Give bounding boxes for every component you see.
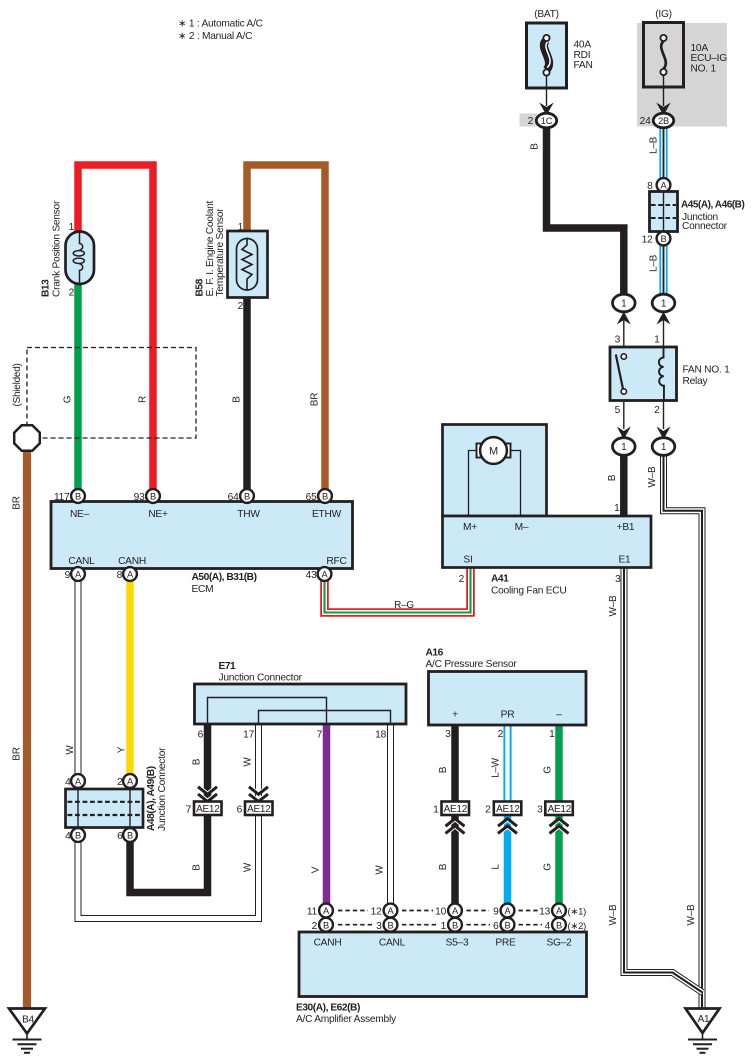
svg-text:1C: 1C — [541, 116, 553, 126]
svg-text:12: 12 — [642, 234, 653, 245]
relay pin 5 lead and arrow — [613, 401, 636, 456]
wire B from junction connector A48 pin 6B to junction AE12 pin 7 — [130, 814, 208, 893]
amplifier pin 11A circle — [319, 904, 333, 918]
svg-text:(Shielded): (Shielded) — [12, 363, 23, 406]
svg-text:B: B — [150, 492, 156, 502]
svg-text:B: B — [438, 766, 449, 773]
wire W from junction connector E71 pin 17 to AE12 pin 6 — [255, 723, 262, 802]
svg-text:2: 2 — [654, 405, 660, 416]
svg-text:AE12: AE12 — [196, 804, 220, 815]
svg-text:A: A — [505, 906, 512, 916]
svg-text:A: A — [556, 906, 563, 916]
svg-text:13: 13 — [539, 906, 550, 917]
svg-text:G: G — [543, 766, 554, 774]
junction AE12 pin 6 box — [245, 802, 273, 816]
svg-text:W: W — [65, 745, 76, 755]
wire B from coolant temp sensor pin 2 to ECM pin 64 THW — [243, 296, 251, 490]
chevron arrows into AE12 pin 6 — [249, 786, 268, 802]
wire W-B from cooling fan ECU E1 to ground A1 — [624, 567, 703, 993]
junction connector A45 pin 12B circle — [657, 232, 671, 246]
svg-text:Junction Connector: Junction Connector — [157, 747, 168, 831]
svg-text:1: 1 — [621, 299, 627, 310]
svg-text:NO. 1: NO. 1 — [691, 63, 717, 74]
svg-text:B: B — [530, 143, 541, 150]
svg-text:M–: M– — [515, 522, 529, 533]
svg-text:SI: SI — [463, 555, 472, 566]
svg-text:A: A — [661, 181, 668, 191]
wire L-W from A/C pressure sensor pin 2 PR to AE12 pin 2 — [503, 724, 511, 802]
ECM pin 65 B circle — [318, 489, 332, 503]
amplifier pin 10A circle — [448, 904, 462, 918]
svg-text:B: B — [661, 234, 667, 244]
svg-text:CANH: CANH — [314, 938, 342, 949]
svg-text:B: B — [75, 492, 81, 502]
svg-text:Cooling Fan ECU: Cooling Fan ECU — [491, 585, 567, 596]
chevron arrows into AE12 pin 1 — [446, 819, 465, 835]
crank position sensor B13 body — [66, 232, 95, 285]
svg-text:8: 8 — [647, 181, 653, 192]
wire B from A/C pressure sensor pin 3 + to AE12 pin 1 — [451, 724, 459, 802]
A/C amplifier assembly E30(A),E62(B) body — [299, 932, 587, 997]
IG circuit gray background panel — [637, 23, 727, 127]
svg-text:PRE: PRE — [495, 938, 516, 949]
wire W from ECM pin 9 CANL to junction connector A48 pin 4A — [75, 580, 82, 775]
svg-text:L–B: L–B — [649, 254, 660, 272]
wire W from junction connector A48 pin 4B to junction AE12 pin 6 — [78, 814, 259, 919]
svg-text:+: + — [452, 710, 458, 721]
svg-text:R: R — [138, 396, 149, 403]
ground A1 — [686, 1009, 720, 1053]
svg-text:A48(A), A49(B): A48(A), A49(B) — [146, 766, 157, 831]
svg-text:W–B: W–B — [647, 466, 658, 488]
svg-text:A: A — [388, 906, 395, 916]
amplifier pin 12A circle — [384, 904, 398, 918]
junction AE12 pin 3 box — [545, 802, 573, 816]
wire L from AE12 pin 2 to A/C amplifier pin 9A PRE — [504, 814, 512, 904]
svg-text:2: 2 — [117, 777, 123, 788]
amplifier pin 4B circle — [552, 918, 566, 932]
svg-text:B58: B58 — [194, 278, 205, 296]
svg-text:43: 43 — [306, 570, 317, 581]
ECM pin 9 A circle — [71, 567, 85, 581]
coolant temperature sensor B58 body — [228, 231, 268, 298]
svg-text:3: 3 — [537, 804, 543, 815]
svg-text:CANL: CANL — [379, 938, 406, 949]
svg-text:THW: THW — [237, 509, 260, 520]
svg-text:ECM: ECM — [192, 584, 214, 595]
wire G from crank position sensor pin 2 to ECM pin 117 NE- — [74, 283, 82, 490]
svg-text:2: 2 — [312, 921, 318, 932]
svg-text:A: A — [75, 777, 82, 787]
svg-text:R–G: R–G — [394, 600, 414, 611]
svg-text:65: 65 — [306, 492, 317, 503]
svg-text:Junction Connector: Junction Connector — [219, 673, 303, 684]
svg-text:RFC: RFC — [326, 556, 346, 567]
A48 pin 4B circle — [71, 828, 85, 842]
svg-text:BR: BR — [310, 393, 321, 406]
amplifier pin 3B circle — [384, 918, 398, 932]
dashed links between amplifier pin circles row A — [338, 910, 538, 912]
svg-text:2: 2 — [69, 287, 75, 298]
svg-text:Temperature Sensor: Temperature Sensor — [215, 208, 226, 297]
svg-text:A: A — [322, 570, 329, 580]
svg-text:W: W — [243, 862, 254, 872]
svg-text:NE+: NE+ — [148, 509, 168, 520]
ECM pin 93 B circle — [146, 489, 160, 503]
fan motor M — [469, 437, 521, 516]
svg-text:4: 4 — [65, 777, 71, 788]
svg-text:FAN: FAN — [574, 60, 593, 71]
ground B4 — [9, 1009, 45, 1053]
ECM pin 43 A circle — [318, 567, 332, 581]
svg-text:A50(A), B31(B): A50(A), B31(B) — [192, 572, 257, 583]
svg-text:B: B — [244, 492, 250, 502]
svg-text:1: 1 — [238, 222, 244, 233]
wire L-B from connector 2B to junction connector A45 pin 8A — [659, 127, 667, 179]
svg-text:∗ 2 : Manual A/C: ∗ 2 : Manual A/C — [178, 31, 252, 42]
svg-text:12: 12 — [371, 906, 382, 917]
svg-text:17: 17 — [243, 729, 254, 740]
svg-text:1: 1 — [614, 503, 620, 514]
svg-text:6: 6 — [493, 921, 499, 932]
svg-text:B: B — [452, 921, 458, 931]
relay pin 2 lead and arrow — [652, 401, 675, 456]
fuse RDI FAN 40A (BAT) — [527, 23, 567, 106]
svg-text:(IG): (IG) — [655, 9, 672, 20]
shield ground octagon — [14, 425, 40, 451]
svg-text:AE12: AE12 — [548, 804, 572, 815]
svg-text:2B: 2B — [658, 116, 669, 126]
svg-text:Y: Y — [117, 746, 128, 753]
cooling fan ECU A41 main body — [443, 516, 652, 568]
svg-text:CANL: CANL — [68, 556, 95, 567]
junction AE12 pin 1 box — [442, 802, 470, 816]
svg-text:3: 3 — [615, 334, 621, 345]
A48 pin 6B circle — [123, 828, 137, 842]
svg-text:7: 7 — [186, 804, 192, 815]
svg-text:B: B — [232, 396, 243, 403]
svg-text:B: B — [438, 863, 449, 870]
svg-text:Relay: Relay — [683, 376, 709, 387]
chevron arrows into AE12 pin 7 — [198, 786, 217, 802]
svg-text:A: A — [127, 777, 134, 787]
junction connector A45 pin 8A circle — [657, 178, 671, 192]
wire V from junction connector E71 pin 7 to A/C amplifier pin 11A CANH — [323, 723, 331, 904]
svg-text:G: G — [63, 395, 74, 403]
svg-text:1: 1 — [661, 442, 667, 453]
svg-text:6: 6 — [237, 804, 243, 815]
svg-text:SG–2: SG–2 — [546, 938, 572, 949]
shielded cable dashed boundary — [27, 348, 196, 439]
wire B from fuse connector 1C to relay-feed connector — [547, 127, 624, 296]
ECM connector body A50(A),B31(B) — [51, 502, 353, 569]
svg-text:2: 2 — [498, 729, 504, 740]
svg-text:S5–3: S5–3 — [446, 938, 469, 949]
svg-text:6: 6 — [117, 831, 123, 842]
A48 pin 4A circle — [71, 774, 85, 788]
svg-text:6: 6 — [198, 729, 204, 740]
svg-text:Crank Position Sensor: Crank Position Sensor — [52, 200, 63, 297]
svg-text:E30(A), E62(B): E30(A), E62(B) — [296, 1002, 360, 1013]
svg-text:+B1: +B1 — [617, 522, 635, 533]
svg-text:CANH: CANH — [118, 556, 146, 567]
svg-text:7: 7 — [317, 729, 323, 740]
svg-text:W–B: W–B — [608, 595, 619, 617]
connector 2B oval — [653, 113, 673, 128]
wire BR from shield octagon to ground B4 — [23, 450, 31, 1009]
wire W-B from relay pin 2 connector to ground A1 — [664, 454, 703, 1008]
svg-text:10: 10 — [435, 906, 446, 917]
svg-text:3: 3 — [376, 921, 382, 932]
dashed links between amplifier pin circles row B — [338, 924, 542, 926]
svg-text:A/C Amplifier Assembly: A/C Amplifier Assembly — [296, 1014, 397, 1025]
svg-text:A: A — [127, 570, 134, 580]
chevron arrows into AE12 pin 2 — [498, 819, 517, 835]
svg-text:24: 24 — [640, 116, 651, 127]
svg-text:A: A — [75, 570, 82, 580]
svg-text:B: B — [505, 921, 511, 931]
wire G from AE12 pin 3 to A/C amplifier pin 13A SG-2 — [555, 814, 563, 904]
svg-text:B: B — [192, 758, 203, 765]
wire L-B from junction connector A45 pin 12B to relay-feed connector — [659, 244, 667, 296]
svg-text:–: – — [556, 710, 562, 721]
svg-text:PR: PR — [501, 710, 515, 721]
amplifier pin 1B circle — [448, 918, 462, 932]
svg-text:1: 1 — [433, 804, 439, 815]
svg-text:4: 4 — [545, 921, 551, 932]
svg-text:Connector: Connector — [682, 221, 728, 232]
svg-text:FAN NO. 1: FAN NO. 1 — [683, 364, 731, 375]
svg-text:W: W — [375, 865, 386, 875]
svg-text:3: 3 — [445, 729, 451, 740]
svg-text:(∗1): (∗1) — [568, 906, 587, 917]
svg-text:5: 5 — [615, 405, 621, 416]
svg-text:B: B — [607, 474, 618, 481]
in-line connector oval 1 (L-B wire, right) — [652, 294, 675, 347]
in-line connector oval 1 (B wire, left) — [613, 294, 636, 347]
svg-text:A/C Pressure Sensor: A/C Pressure Sensor — [426, 659, 518, 670]
wire Y from ECM pin 8 CANH to junction connector A48 pin 2A — [126, 580, 134, 775]
svg-text:E71: E71 — [219, 661, 237, 672]
svg-text:1: 1 — [69, 222, 75, 233]
A48 pin 2A circle — [123, 774, 137, 788]
arrow into connector 1C — [539, 103, 553, 116]
junction AE12 pin 2 box — [494, 802, 522, 816]
svg-text:A: A — [452, 906, 459, 916]
gray tag behind pin 2 of connector 1C — [520, 114, 538, 127]
wire G from A/C pressure sensor pin 1 - to AE12 pin 3 — [555, 724, 563, 802]
svg-text:9: 9 — [65, 570, 71, 581]
svg-text:A45(A), A46(B): A45(A), A46(B) — [681, 199, 744, 210]
wire BR from coolant temp sensor pin 1 to ECM pin 65 ETHW — [247, 165, 325, 490]
svg-text:B: B — [322, 492, 328, 502]
svg-text:1: 1 — [441, 921, 447, 932]
svg-text:(BAT): (BAT) — [534, 9, 559, 20]
svg-text:1: 1 — [654, 334, 660, 345]
svg-text:64: 64 — [228, 492, 239, 503]
amplifier pin 13A circle — [552, 904, 566, 918]
svg-text:B: B — [556, 921, 562, 931]
wire B from AE12 pin 1 to A/C amplifier pin 10A S5-3 — [451, 814, 459, 904]
ECM pin 8 A circle — [123, 567, 137, 581]
svg-text:2: 2 — [238, 301, 244, 312]
wire R-G from ECM pin 43 RFC to cooling fan ECU pin 2 SI — [325, 567, 471, 613]
svg-text:B: B — [192, 864, 203, 871]
svg-text:M+: M+ — [463, 522, 477, 533]
svg-text:93: 93 — [134, 492, 145, 503]
svg-text:B: B — [75, 831, 81, 841]
svg-text:4: 4 — [65, 831, 71, 842]
svg-text:L: L — [491, 864, 502, 870]
junction connector A48(A),A49(B) body — [66, 789, 144, 828]
svg-text:AE12: AE12 — [496, 804, 520, 815]
svg-text:2: 2 — [485, 804, 491, 815]
svg-text:(∗2): (∗2) — [568, 921, 587, 932]
svg-text:L–B: L–B — [649, 136, 660, 154]
svg-text:3: 3 — [615, 574, 621, 585]
junction AE12 pin 7 box — [194, 802, 222, 816]
svg-text:B4: B4 — [22, 1014, 34, 1025]
svg-text:W: W — [243, 757, 254, 767]
amplifier pin 9A circle — [501, 904, 515, 918]
junction connector A45(A),A46(B) body — [650, 192, 678, 232]
svg-text:L–W: L–W — [491, 757, 502, 778]
amplifier pin 2B circle — [319, 918, 333, 932]
wire B from relay pin 5 connector to cooling fan ECU +B1 — [620, 454, 628, 518]
svg-text:AE12: AE12 — [247, 804, 271, 815]
svg-text:1: 1 — [549, 729, 555, 740]
svg-text:B: B — [388, 921, 394, 931]
svg-text:11: 11 — [307, 906, 318, 917]
wire B from junction connector E71 pin 6 to AE12 pin 7 — [204, 723, 212, 802]
svg-text:9: 9 — [493, 906, 499, 917]
svg-text:V: V — [311, 866, 322, 873]
svg-text:8: 8 — [117, 570, 123, 581]
junction connector E71 body — [195, 684, 407, 724]
svg-text:B: B — [127, 831, 133, 841]
amplifier pin 6B circle — [501, 918, 515, 932]
svg-text:W–B: W–B — [686, 904, 697, 926]
svg-text:1: 1 — [661, 299, 667, 310]
svg-text:E1: E1 — [619, 555, 632, 566]
svg-text:A16: A16 — [426, 647, 444, 658]
svg-text:2: 2 — [528, 116, 534, 127]
svg-text:G: G — [543, 863, 554, 871]
connector 1C oval — [536, 113, 556, 128]
svg-text:NE–: NE– — [70, 509, 90, 520]
svg-text:ETHW: ETHW — [312, 509, 342, 520]
A/C pressure sensor A16 body — [429, 672, 587, 726]
wire W from junction connector E71 pin 18 to A/C amplifier pin 12A CANL — [387, 723, 394, 904]
fuse ECU-IG NO.1 10A (IG) — [644, 23, 684, 107]
chevron arrows into AE12 pin 3 — [550, 819, 569, 835]
ECM pin 64 B circle — [240, 489, 254, 503]
svg-text:M: M — [489, 446, 498, 458]
svg-text:2: 2 — [459, 574, 465, 585]
wire R from crank position sensor pin 1 to ECM pin 93 NE+ — [78, 165, 153, 490]
svg-text:18: 18 — [375, 729, 386, 740]
svg-text:AE12: AE12 — [444, 804, 468, 815]
svg-text:1: 1 — [621, 442, 627, 453]
svg-text:B: B — [323, 921, 329, 931]
arrow into connector 2B — [656, 103, 670, 116]
ECM pin 117 B circle — [71, 489, 85, 503]
svg-text:A41: A41 — [491, 574, 509, 585]
svg-text:∗ 1 : Automatic A/C: ∗ 1 : Automatic A/C — [178, 19, 263, 30]
svg-text:BR: BR — [12, 496, 23, 509]
svg-text:117: 117 — [54, 492, 70, 503]
svg-text:B13: B13 — [40, 279, 51, 297]
cooling fan ECU A41 motor compartment — [443, 425, 547, 517]
svg-text:A1: A1 — [698, 1014, 710, 1025]
svg-text:A: A — [323, 906, 330, 916]
svg-text:BR: BR — [12, 747, 23, 760]
relay FAN NO.1 body — [610, 347, 677, 401]
svg-text:W–B: W–B — [608, 904, 619, 926]
